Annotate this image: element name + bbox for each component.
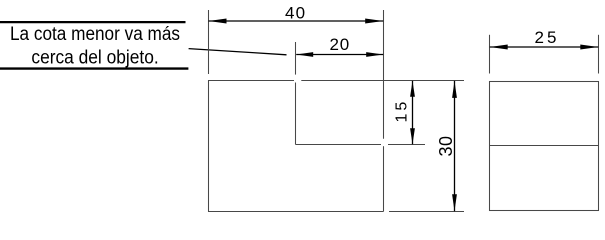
- svg-text:20: 20: [330, 35, 351, 54]
- arrowhead 40 right: [365, 19, 383, 24]
- dimension line 40: [209, 20, 384, 22]
- object front view: bottom edge: [208, 211, 384, 213]
- arrowhead 15 bottom: [410, 128, 415, 144]
- extension line top of 15/30 dims: [301, 80, 464, 82]
- dimension line 30: [454, 81, 456, 211]
- svg-text:cerca del objeto.: cerca del objeto.: [31, 48, 158, 69]
- extension line left of 25 dim: [489, 35, 491, 74]
- leader line to 20 dimension: [189, 49, 287, 55]
- object front view: right edge: [383, 146, 385, 211]
- extension line bottom of 15 dim: [388, 144, 425, 146]
- object side view middle edge: [490, 145, 599, 147]
- svg-text:25: 25: [535, 28, 560, 47]
- svg-text:15: 15: [393, 99, 410, 123]
- dimension line 20: [296, 54, 383, 56]
- note rule bottom: [0, 67, 188, 69]
- arrowhead 30 top: [452, 81, 457, 98]
- dimension line 15: [412, 81, 414, 145]
- arrowhead 20 left: [296, 52, 313, 57]
- object front view: top edge: [209, 80, 295, 82]
- dimension line 25: [490, 46, 599, 48]
- object front view: step vertical edge: [295, 83, 297, 145]
- svg-text:30: 30: [436, 135, 456, 156]
- object front view: left edge: [208, 80, 210, 212]
- arrowhead 40 left: [209, 19, 227, 24]
- svg-text:40: 40: [285, 4, 306, 23]
- object side view rectangle: [490, 82, 599, 211]
- object front view: step horizontal edge: [296, 144, 382, 146]
- extension line bottom of 30 dim: [389, 211, 464, 213]
- extension line right of 25 dim: [598, 35, 600, 74]
- arrowhead 25 left: [490, 45, 508, 50]
- arrowhead 30 bottom: [452, 194, 457, 211]
- arrowhead 25 right: [580, 45, 598, 50]
- extension line left of 20 dim: [295, 42, 297, 75]
- note rule top: [0, 21, 186, 23]
- extension line left of 40 dim: [208, 10, 210, 74]
- svg-text:La cota menor va más: La cota menor va más: [10, 24, 180, 45]
- arrowhead 15 top: [410, 81, 415, 97]
- extension line right of 40/20 dims: [383, 10, 385, 139]
- arrowhead 20 right: [366, 52, 383, 57]
